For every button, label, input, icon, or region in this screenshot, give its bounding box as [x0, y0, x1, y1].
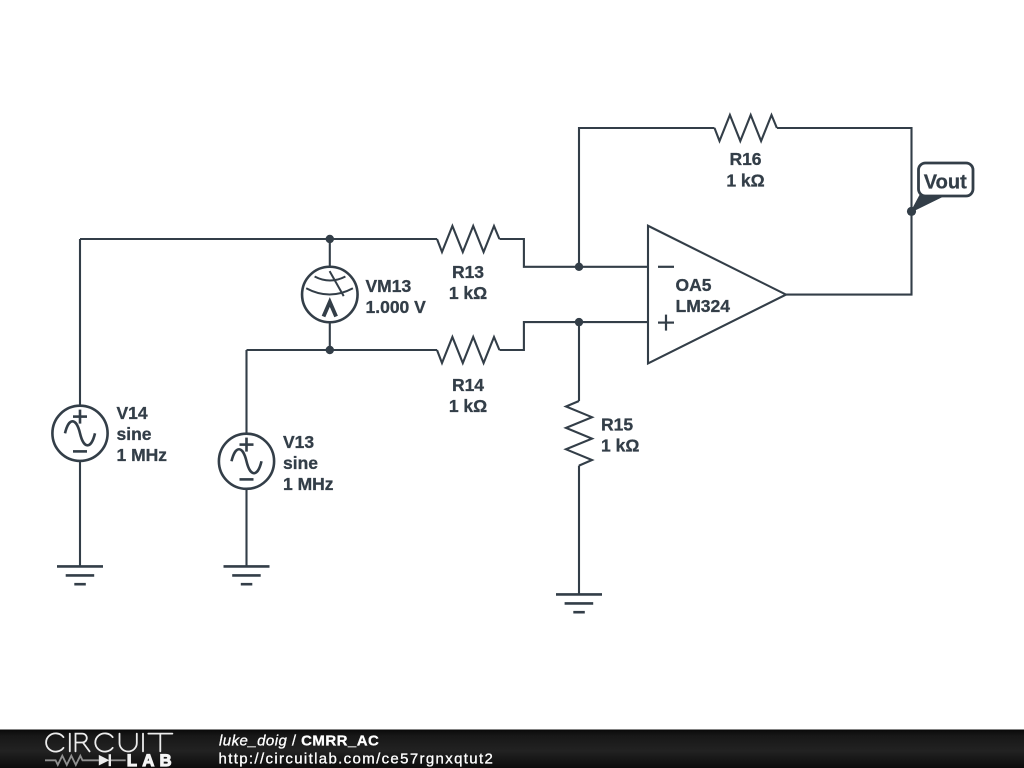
svg-text:R15: R15 [601, 415, 633, 435]
svg-text:luke_doig / CMRR_AC: luke_doig / CMRR_AC [219, 733, 379, 750]
svg-text:1.000 V: 1.000 V [366, 297, 427, 317]
svg-text:1 MHz: 1 MHz [117, 445, 168, 465]
svg-text:sine: sine [117, 424, 152, 444]
svg-text:Vout: Vout [924, 172, 967, 194]
svg-text:R13: R13 [452, 262, 484, 282]
svg-text:http://circuitlab.com/ce57rgnx: http://circuitlab.com/ce57rgnxqtut2 [219, 750, 495, 767]
svg-text:VM13: VM13 [366, 276, 412, 296]
svg-text:1 kΩ: 1 kΩ [449, 283, 487, 303]
svg-text:V14: V14 [117, 403, 148, 423]
svg-text:OA5: OA5 [676, 275, 712, 295]
svg-text:R14: R14 [452, 375, 484, 395]
svg-text:1 kΩ: 1 kΩ [726, 171, 764, 191]
svg-text:R16: R16 [729, 149, 761, 169]
svg-text:1 MHz: 1 MHz [283, 474, 334, 494]
svg-text:V13: V13 [283, 432, 314, 452]
svg-text:sine: sine [283, 453, 318, 473]
svg-text:1 kΩ: 1 kΩ [449, 396, 487, 416]
svg-text:LAB: LAB [127, 752, 177, 768]
svg-text:1 kΩ: 1 kΩ [601, 436, 639, 456]
svg-text:LM324: LM324 [676, 296, 731, 316]
